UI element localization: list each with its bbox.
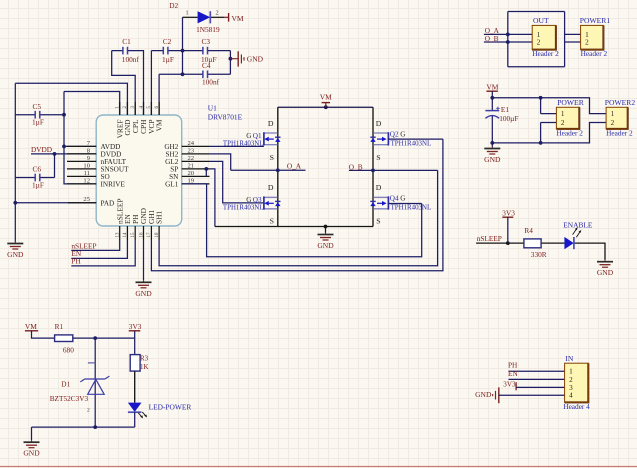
svg-text:Header 2: Header 2: [581, 49, 608, 58]
svg-text:G: G: [246, 132, 251, 140]
svg-text:R4: R4: [524, 226, 533, 235]
svg-text:EN: EN: [508, 369, 518, 378]
svg-text:BZT52C3V3: BZT52C3V3: [50, 394, 89, 403]
svg-text:ENABLE: ENABLE: [563, 221, 593, 230]
svg-text:D1: D1: [61, 380, 70, 389]
svg-text:Header 2: Header 2: [556, 129, 583, 138]
svg-text:O_A: O_A: [287, 162, 302, 171]
svg-text:1µF: 1µF: [162, 55, 174, 64]
svg-text:S: S: [376, 153, 380, 162]
svg-text:16: 16: [139, 232, 144, 238]
svg-text:C6: C6: [33, 165, 42, 174]
svg-text:S: S: [270, 217, 274, 226]
svg-text:100nf: 100nf: [122, 55, 140, 64]
svg-text:3V3: 3V3: [502, 209, 515, 218]
svg-text:PAD: PAD: [101, 199, 115, 207]
svg-text:POWER: POWER: [557, 98, 585, 107]
svg-text:C2: C2: [163, 37, 172, 46]
svg-text:C4: C4: [202, 61, 211, 70]
svg-text:G: G: [400, 195, 405, 203]
svg-text:VM: VM: [155, 119, 164, 131]
svg-text:2: 2: [561, 119, 565, 127]
svg-text:15: 15: [131, 232, 136, 238]
svg-text:3V3: 3V3: [503, 381, 516, 389]
svg-text:2: 2: [537, 38, 541, 46]
svg-text:GND: GND: [475, 390, 492, 399]
svg-text:GND: GND: [597, 268, 614, 277]
svg-text:Q2: Q2: [390, 130, 399, 138]
svg-text:1: 1: [186, 10, 189, 17]
svg-text:O_B: O_B: [485, 34, 499, 43]
svg-text:S: S: [270, 153, 274, 162]
svg-text:R1: R1: [55, 322, 64, 331]
svg-text:GL1: GL1: [165, 181, 179, 189]
svg-text:10: 10: [83, 162, 90, 169]
svg-text:1K: 1K: [140, 364, 148, 371]
svg-text:G: G: [400, 130, 405, 138]
svg-text:GND: GND: [23, 449, 40, 458]
svg-text:INRIVE: INRIVE: [101, 181, 126, 189]
svg-text:4: 4: [569, 392, 573, 400]
svg-text:1µF: 1µF: [32, 180, 44, 189]
svg-text:PH: PH: [71, 257, 81, 266]
svg-text:13: 13: [116, 232, 121, 238]
svg-text:D: D: [268, 119, 274, 128]
svg-text:nSLEEP: nSLEEP: [477, 234, 502, 243]
svg-text:2: 2: [611, 119, 615, 127]
svg-text:1: 1: [561, 110, 565, 118]
svg-text:25: 25: [83, 196, 90, 203]
svg-text:14: 14: [123, 232, 128, 238]
svg-text:DVDD: DVDD: [31, 145, 52, 154]
svg-text:DRV8701E: DRV8701E: [208, 113, 243, 122]
svg-text:3V3: 3V3: [129, 322, 142, 331]
svg-text:2: 2: [585, 38, 589, 46]
svg-text:1N5819: 1N5819: [196, 25, 220, 34]
svg-text:100nf: 100nf: [202, 77, 220, 86]
svg-text:VM: VM: [25, 322, 37, 331]
svg-text:3: 3: [569, 384, 573, 392]
svg-text:100µF: 100µF: [499, 114, 518, 123]
svg-text:S: S: [376, 217, 380, 226]
svg-text:D2: D2: [169, 1, 178, 10]
svg-text:2: 2: [216, 10, 219, 17]
svg-text:SH1: SH1: [155, 211, 164, 224]
svg-text:OUT: OUT: [533, 16, 549, 25]
svg-text:D: D: [376, 119, 382, 128]
svg-text:D: D: [376, 183, 382, 192]
svg-text:R3: R3: [140, 356, 149, 363]
svg-text:GND: GND: [247, 55, 264, 64]
svg-text:12: 12: [83, 177, 90, 184]
svg-text:POWER1: POWER1: [580, 16, 611, 25]
svg-text:GND: GND: [317, 241, 334, 250]
svg-text:TPH1R403NL: TPH1R403NL: [223, 140, 264, 147]
svg-text:D: D: [268, 183, 274, 192]
svg-text:23: 23: [188, 147, 195, 154]
svg-text:C3: C3: [202, 37, 211, 46]
svg-text:Header 2: Header 2: [606, 129, 633, 138]
svg-text:U1: U1: [208, 104, 217, 113]
svg-text:Q4: Q4: [390, 195, 399, 203]
svg-text:Q1: Q1: [253, 132, 262, 140]
svg-text:330R: 330R: [531, 250, 547, 259]
svg-text:19: 19: [188, 177, 195, 184]
svg-text:21: 21: [188, 162, 195, 169]
svg-text:680: 680: [63, 345, 74, 354]
svg-text:GND: GND: [484, 155, 501, 164]
svg-text:VM: VM: [486, 82, 498, 91]
svg-text:22: 22: [188, 155, 195, 162]
svg-text:E1: E1: [501, 105, 509, 114]
svg-text:24: 24: [188, 140, 195, 147]
svg-text:17: 17: [147, 232, 152, 238]
svg-text:IN: IN: [565, 354, 574, 363]
svg-text:Q3: Q3: [253, 196, 262, 204]
svg-text:Header 2: Header 2: [532, 49, 559, 58]
svg-text:1: 1: [569, 368, 573, 376]
svg-text:C5: C5: [33, 102, 42, 111]
svg-text:O_B: O_B: [349, 163, 363, 172]
svg-text:2: 2: [87, 408, 90, 414]
svg-text:GND: GND: [7, 250, 24, 259]
svg-text:VM: VM: [320, 93, 332, 102]
svg-text:1µF: 1µF: [32, 118, 44, 127]
svg-text:20: 20: [188, 170, 195, 177]
svg-text:11: 11: [84, 170, 90, 177]
svg-text:2: 2: [569, 376, 573, 384]
svg-text:18: 18: [155, 232, 160, 238]
svg-text:TPH1R403NL: TPH1R403NL: [391, 205, 432, 212]
svg-text:TPH1R403NL: TPH1R403NL: [223, 205, 264, 212]
svg-text:TPH1R403NL: TPH1R403NL: [391, 140, 432, 147]
svg-text:POWER2: POWER2: [605, 98, 636, 107]
svg-text:G: G: [246, 196, 251, 204]
svg-text:LED-POWER: LED-POWER: [149, 403, 192, 412]
svg-text:VM: VM: [232, 14, 244, 23]
svg-text:Header 4: Header 4: [563, 402, 590, 411]
svg-text:GND: GND: [135, 289, 152, 298]
svg-text:1: 1: [611, 110, 615, 118]
svg-text:C1: C1: [122, 37, 131, 46]
